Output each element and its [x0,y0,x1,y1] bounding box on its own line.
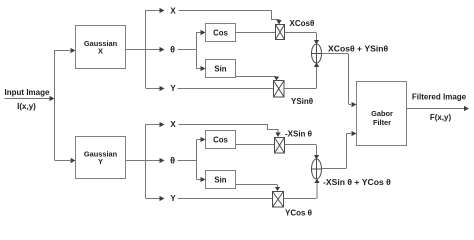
svg-text:Y: Y [170,194,176,203]
svg-text:-XSin θ + YCos θ: -XSin θ + YCos θ [323,177,391,187]
wire top X line staircase into M1 [179,11,282,25]
svg-text:X: X [170,120,176,129]
wire top fanout vertical [145,10,147,88]
svg-text:Cos: Cos [213,136,228,145]
svg-text:XCosθ + YSinθ: XCosθ + YSinθ [328,43,389,53]
svg-text:Sin: Sin [214,176,226,185]
wire bottom theta line [178,160,197,162]
label Input Image I(x,y) [5,88,50,111]
wire input branch vertical [54,50,56,160]
svg-text:Y: Y [170,84,176,93]
svg-text:Filtered Image: Filtered Image [412,92,467,101]
block Gaussian X [76,26,126,69]
svg-text:X: X [170,7,176,16]
wire Sin2 output to M4 top [236,185,281,192]
wire top X branch [146,8,165,13]
wire Gaussian X output to theta arrow [126,47,165,52]
summer A1 [312,44,322,63]
wire bottom Y branch [146,196,165,201]
wire M2 output to adder1 bottom [284,63,319,89]
wire Cos1 output to M1 [236,32,276,34]
wire bottom Y line into M4 [178,198,273,200]
svg-text:Input Image: Input Image [5,88,50,97]
wire into Sin2 [197,177,206,182]
svg-text:X: X [98,47,103,56]
svg-text:Filter: Filter [373,118,391,127]
wire bottom theta fanout vertical [196,140,198,180]
wire into Cos2 [197,137,206,142]
summer A2 [312,159,322,179]
svg-text:XCosθ: XCosθ [290,19,315,28]
svg-text:-XSin θ: -XSin θ [285,130,312,139]
label Filtered Image F(x,y) [412,92,467,122]
wire top Y branch [146,86,165,91]
multiplier M1 [276,25,285,40]
wire M1 output to adder1 top [285,33,320,45]
wire into Cos1 [197,30,206,35]
svg-text:YCos θ: YCos θ [285,209,312,218]
wire Gaussian Y output to theta arrow [126,158,165,163]
block Sin2 [206,171,236,189]
block Cos1 [206,24,236,42]
wire adder2 output to Gabor input2 [322,131,357,169]
wire adder1 output to Gabor input1 [322,54,357,108]
multiplier M2 [274,81,285,98]
multiplier M3 [275,138,285,154]
wire input [5,96,55,101]
wire bottom X line staircase into M3 [179,125,281,138]
svg-text:F(x,y): F(x,y) [430,113,452,122]
wire Sin1 output to M2 top [236,77,280,81]
wire bottom X branch [146,122,165,127]
block Cos2 [206,131,236,149]
svg-text:Cos: Cos [213,29,228,38]
svg-text:Gabor: Gabor [371,109,393,118]
multiplier M4 [273,192,284,208]
wire top theta line [178,49,197,51]
svg-text:θ: θ [170,45,175,55]
wire bottom fanout vertical [145,124,147,198]
wire top theta fanout vertical [196,32,198,69]
wire to Gaussian X [55,48,76,53]
svg-text:Y: Y [98,157,103,166]
block Gabor Filter [357,82,407,146]
block Gaussian Y [76,137,126,179]
svg-text:YSinθ: YSinθ [291,97,313,106]
wire M3 output to adder2 top [285,145,320,160]
svg-text:θ: θ [170,156,175,166]
wire into Sin1 [197,66,206,71]
block Sin1 [206,60,236,78]
wire Cos2 output to M3 [236,144,275,146]
svg-text:I(x,y): I(x,y) [17,102,36,111]
wire to Gaussian Y [55,158,76,163]
wire Gabor output [407,106,470,111]
svg-text:Sin: Sin [214,65,226,74]
wire top Y line into M2 [178,88,274,90]
wire M4 output to adder2 bottom [284,179,320,199]
